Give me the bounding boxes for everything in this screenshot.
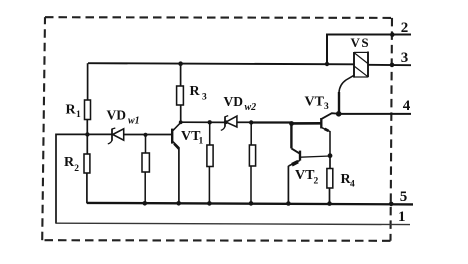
- svg-text:VS: VS: [351, 35, 371, 50]
- svg-text:5: 5: [400, 189, 408, 205]
- svg-text:4: 4: [403, 98, 411, 114]
- svg-text:2: 2: [74, 164, 79, 174]
- svg-text:VD: VD: [107, 107, 127, 122]
- svg-text:2: 2: [314, 176, 319, 186]
- svg-text:1: 1: [76, 110, 81, 120]
- svg-text:4: 4: [350, 179, 355, 189]
- svg-text:3: 3: [324, 102, 329, 112]
- svg-text:w1: w1: [128, 116, 140, 127]
- svg-text:2: 2: [401, 20, 409, 36]
- svg-text:R: R: [66, 103, 77, 118]
- svg-text:1: 1: [398, 209, 406, 225]
- svg-text:VT: VT: [295, 168, 315, 183]
- svg-text:VD: VD: [224, 94, 244, 109]
- svg-text:3: 3: [401, 50, 409, 66]
- svg-text:w2: w2: [245, 102, 257, 113]
- svg-text:3: 3: [202, 92, 207, 102]
- svg-text:VT: VT: [305, 94, 325, 109]
- svg-text:1: 1: [199, 137, 204, 147]
- svg-text:R: R: [190, 84, 201, 99]
